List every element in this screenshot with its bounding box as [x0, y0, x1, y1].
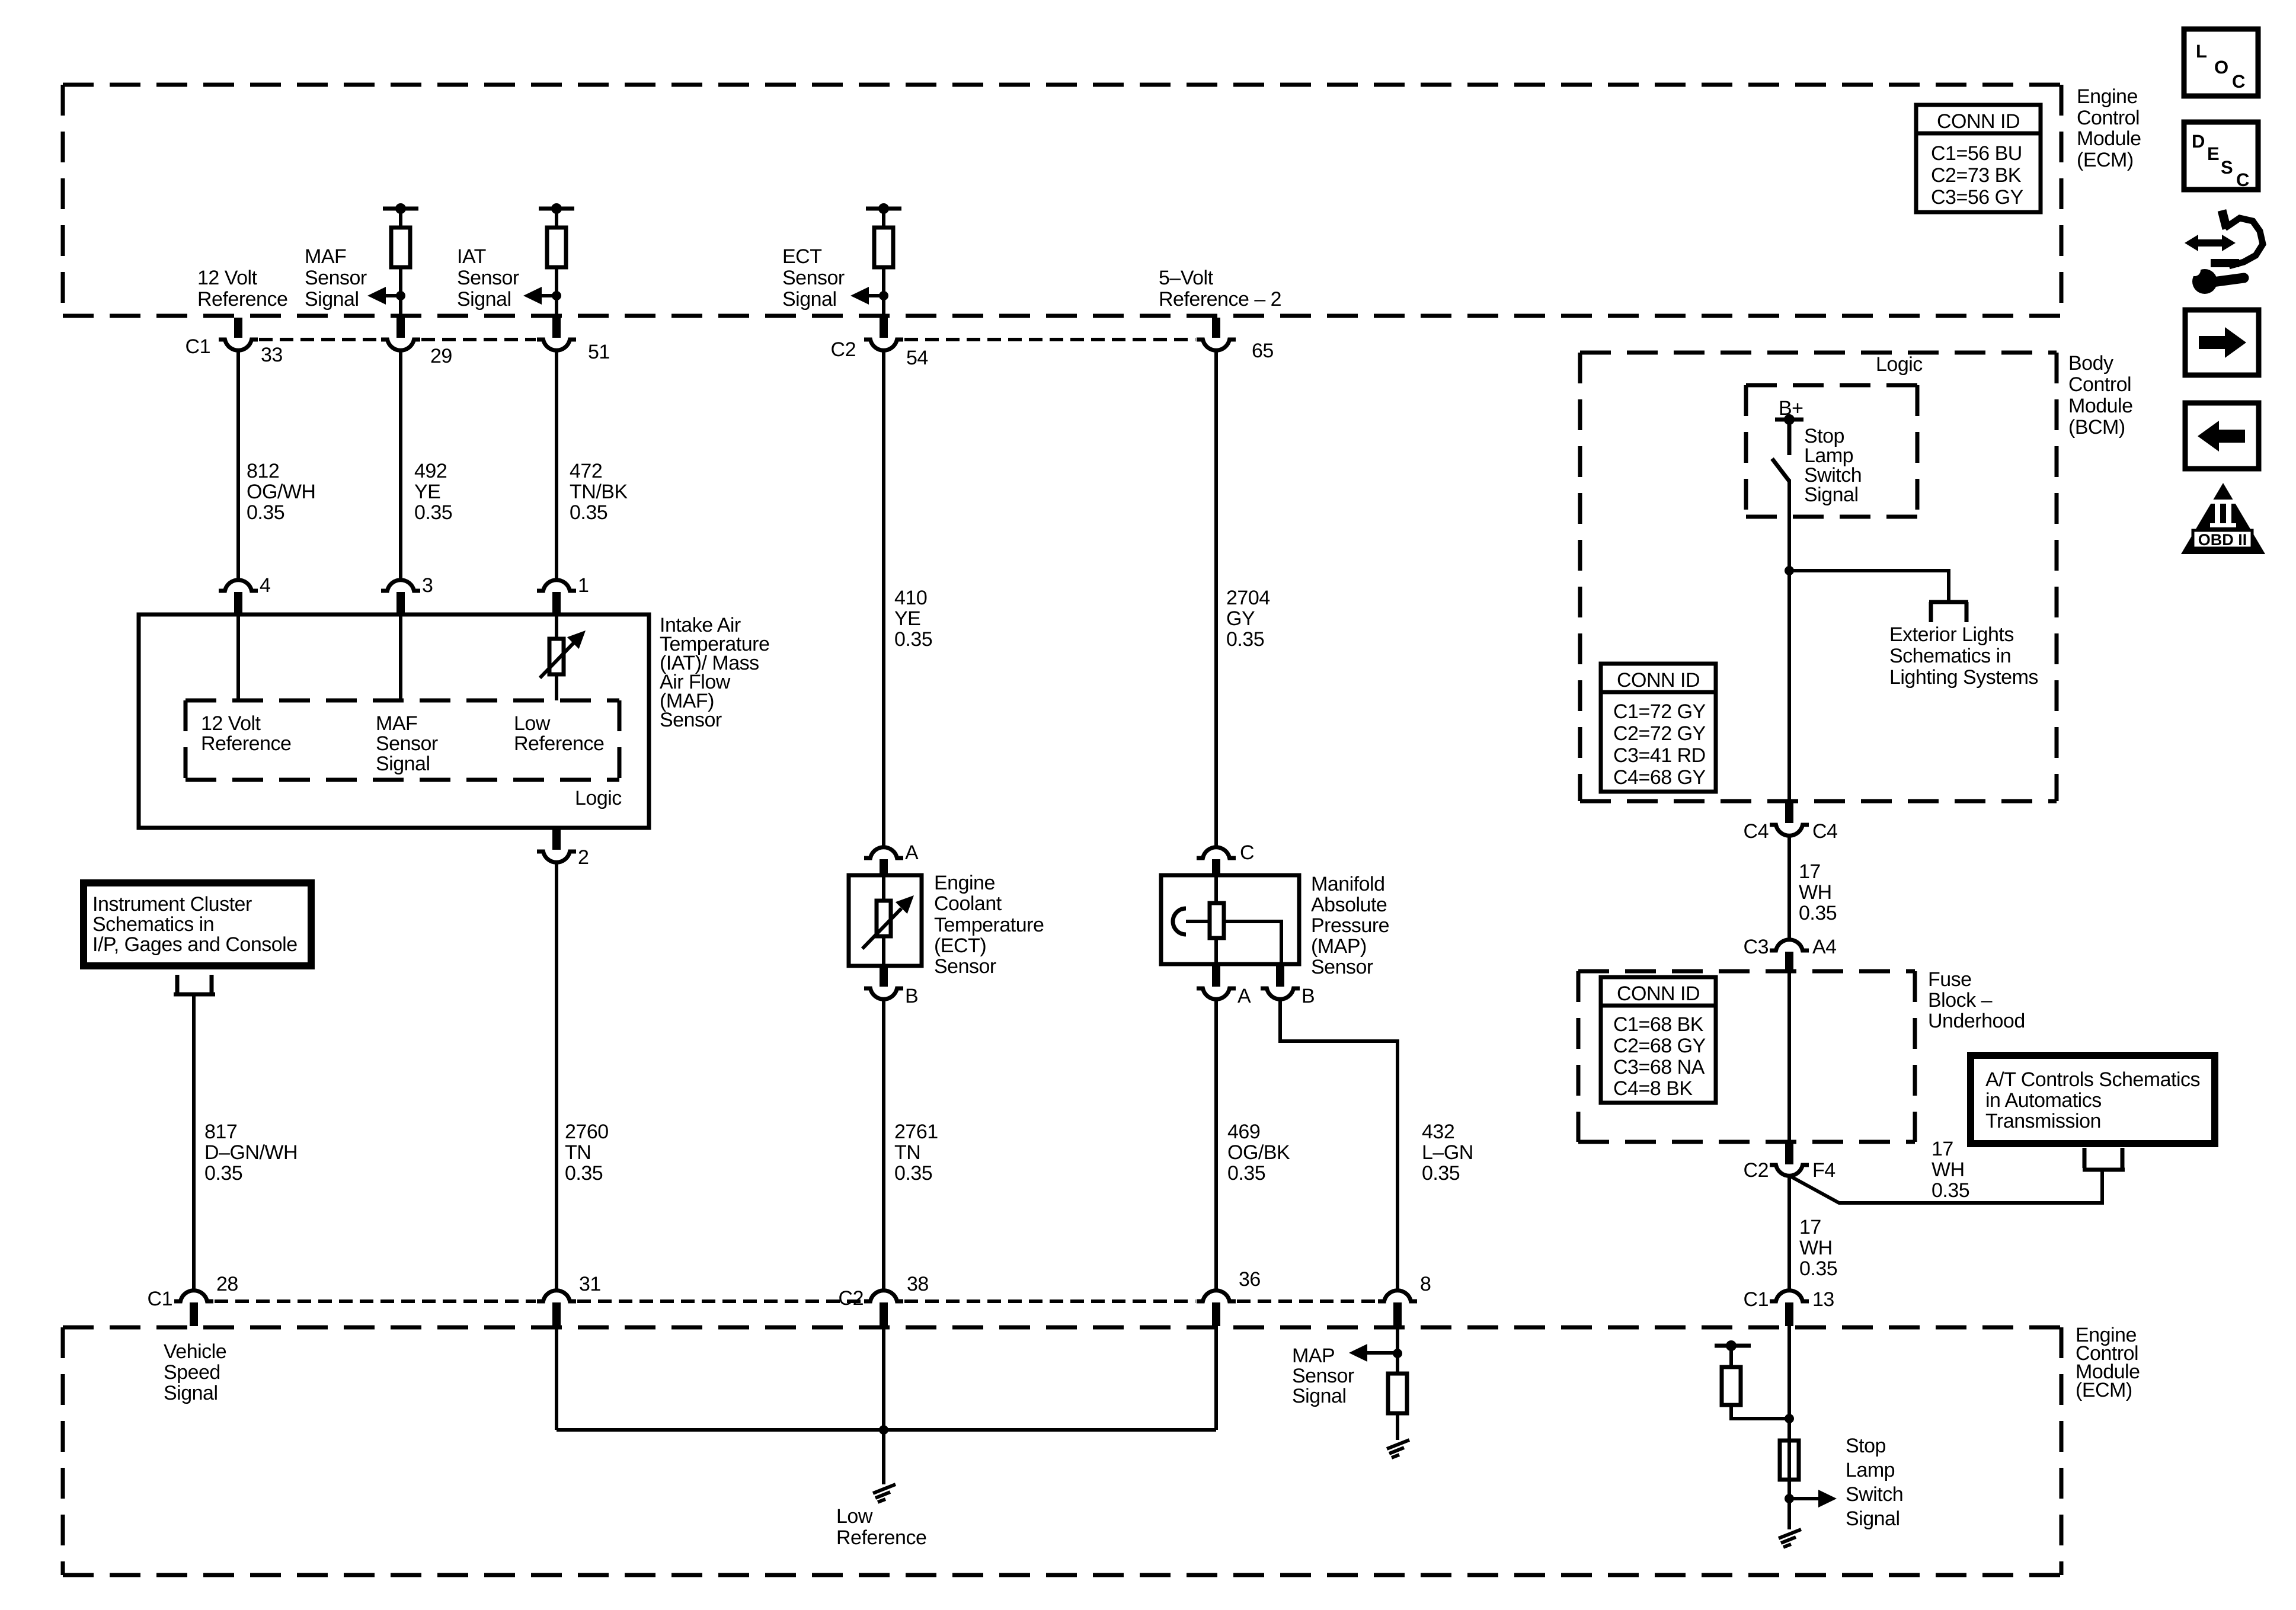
- svg-text:IAT: IAT: [457, 245, 486, 268]
- connector dome C3/A4: [1770, 940, 1809, 950]
- svg-text:4: 4: [260, 574, 270, 597]
- svg-text:L: L: [2196, 41, 2207, 62]
- connector dotted line C2 top (54 to 65): [904, 338, 1195, 341]
- arrow line (stop lamp switch signal): [1789, 1497, 1821, 1500]
- svg-text:0.35: 0.35: [414, 501, 452, 524]
- connector stub pin 38: [880, 1302, 888, 1326]
- svg-text:YE: YE: [894, 607, 920, 630]
- wire inside ECM: 38 down to ground: [882, 1326, 885, 1484]
- svg-text:C2=73 BK: C2=73 BK: [1931, 164, 2022, 187]
- svg-text:MAF: MAF: [376, 712, 417, 735]
- svg-text:0.35: 0.35: [247, 501, 284, 524]
- svg-text:A4: A4: [1812, 936, 1837, 958]
- svg-text:2: 2: [578, 846, 589, 869]
- module box: Engine Control Module (ECM) bottom, dashed outline: [63, 1327, 2061, 1575]
- svg-text:13: 13: [1812, 1288, 1834, 1311]
- junction dot on bus: [879, 1425, 888, 1435]
- svg-text:B: B: [1302, 985, 1315, 1007]
- connector stub pin 65: [1212, 318, 1220, 338]
- svg-text:Sensor: Sensor: [782, 267, 845, 289]
- connector cup pin 51: [537, 340, 576, 350]
- svg-text:C2=68 GY: C2=68 GY: [1613, 1035, 1706, 1057]
- svg-text:(BCM): (BCM): [2068, 416, 2125, 438]
- svg-text:472: 472: [570, 460, 602, 482]
- svg-text:54: 54: [906, 347, 928, 369]
- svg-text:Signal: Signal: [457, 288, 511, 311]
- svg-text:Sensor: Sensor: [1311, 956, 1373, 978]
- svg-text:Instrument Cluster: Instrument Cluster: [92, 893, 252, 916]
- CONN ID table (ECM): [1916, 105, 2041, 212]
- junction dot (ECT signal arrow): [879, 291, 888, 300]
- svg-text:Control: Control: [2077, 107, 2140, 129]
- junction dot on rail: [551, 203, 562, 214]
- svg-text:C4=68 GY: C4=68 GY: [1613, 766, 1706, 789]
- connector stub pin 54: [880, 318, 888, 338]
- svg-text:Sensor: Sensor: [305, 267, 367, 289]
- svg-text:432: 432: [1422, 1121, 1454, 1143]
- svg-text:C: C: [2232, 71, 2245, 92]
- svg-text:Transmission: Transmission: [1985, 1110, 2101, 1132]
- wire 17 WH: C4 to C3: [1787, 834, 1791, 939]
- svg-text:Signal: Signal: [376, 753, 430, 775]
- MAP element resistor: [1210, 903, 1224, 938]
- svg-text:MAF: MAF: [305, 245, 346, 268]
- svg-text:D–GN/WH: D–GN/WH: [204, 1141, 298, 1164]
- junction dot (exterior lights branch): [1785, 566, 1794, 575]
- wire pin 3 to logic box: [399, 613, 402, 700]
- connector dotted line bottom (38 to 36): [904, 1299, 1195, 1303]
- svg-text:492: 492: [414, 460, 447, 482]
- wire switch down through BCM: [1787, 479, 1791, 801]
- svg-text:I/P, Gages and Console: I/P, Gages and Console: [92, 933, 298, 956]
- svg-text:WH: WH: [1799, 1237, 1833, 1259]
- resistor pull-up rail (ECT signal): [866, 207, 901, 211]
- reference box: A/T Controls Schematics: [1971, 1055, 2215, 1144]
- connector cup pin 54: [864, 340, 903, 350]
- junction dot (stop lamp signal arrow): [1785, 1494, 1794, 1503]
- svg-text:D: D: [2192, 131, 2205, 152]
- connector stub pin 51: [552, 318, 561, 338]
- svg-text:ECT: ECT: [782, 245, 822, 268]
- connector stub pin 33: [234, 318, 242, 338]
- svg-text:0.35: 0.35: [204, 1162, 242, 1185]
- svg-text:Lighting Systems: Lighting Systems: [1889, 666, 2038, 689]
- wire bar to resistor: [1729, 1346, 1733, 1367]
- svg-text:C4: C4: [1812, 820, 1837, 843]
- connector stub pin 31: [552, 1302, 561, 1326]
- junction dot (IAT signal arrow): [552, 291, 561, 300]
- svg-text:(ECM): (ECM): [2076, 1379, 2132, 1401]
- connector dotted line C1 top (33 to 29): [259, 338, 380, 341]
- wire pin C into MAP element: [1214, 875, 1218, 903]
- wire 17 WH: F4 down to C1-13: [1787, 1174, 1791, 1290]
- svg-text:Body: Body: [2068, 352, 2113, 375]
- MAP element output line right: [1224, 921, 1281, 964]
- svg-text:GY: GY: [1226, 607, 1255, 630]
- svg-text:O: O: [2214, 57, 2228, 78]
- svg-text:Underhood: Underhood: [1928, 1010, 2025, 1032]
- svg-text:Control: Control: [2068, 373, 2131, 396]
- svg-text:WH: WH: [1799, 881, 1832, 904]
- svg-text:Signal: Signal: [305, 288, 359, 311]
- connector dome pin 8: [1378, 1291, 1417, 1301]
- svg-text:in Automatics: in Automatics: [1985, 1089, 2102, 1112]
- svg-text:0.35: 0.35: [1799, 1257, 1837, 1280]
- wire resistor to junction: [399, 267, 402, 318]
- connector stub pin 1: [552, 592, 561, 613]
- wire 410 YE: C2-54 down to ECT pin A: [882, 349, 885, 846]
- wire inside ECM: 8 down to MAP signal junction: [1396, 1326, 1399, 1374]
- connector cup pin 33: [219, 340, 258, 350]
- svg-text:Low: Low: [836, 1505, 873, 1528]
- branch wire to exterior lights: [1789, 571, 1949, 602]
- svg-text:38: 38: [907, 1273, 929, 1295]
- svg-text:Vehicle: Vehicle: [164, 1340, 226, 1363]
- svg-text:65: 65: [1252, 340, 1274, 362]
- junction dot (stop lamp): [1785, 1414, 1794, 1423]
- svg-text:C1=56 BU: C1=56 BU: [1931, 142, 2022, 165]
- svg-text:Signal: Signal: [1804, 484, 1859, 506]
- wire thermistor to logic box: [555, 674, 558, 700]
- svg-text:TN/BK: TN/BK: [570, 481, 628, 503]
- connector stub pin 4: [234, 592, 242, 613]
- icon: back arrow box: [2185, 403, 2259, 469]
- svg-text:Reference: Reference: [836, 1526, 926, 1549]
- connector cup pin 2: [537, 852, 576, 862]
- svg-text:0.35: 0.35: [1226, 628, 1264, 651]
- wire resistor to junction: [1731, 1405, 1789, 1419]
- thermistor arrowhead: [896, 895, 914, 914]
- wire 812 OG/WH: C1-33 down to MAF pin 4: [236, 349, 240, 581]
- icon: LOC box: [2184, 29, 2258, 96]
- reference box: Instrument Cluster Schematics: [84, 883, 311, 966]
- svg-text:Signal: Signal: [164, 1382, 218, 1404]
- connector cup C2/F4: [1770, 1165, 1809, 1176]
- switch blade (stop lamp switch): [1772, 459, 1789, 481]
- connector stub pin 2: [552, 830, 561, 850]
- wire 2760 TN: MAF pin 2 down to C1-31: [555, 861, 558, 1290]
- svg-text:0.35: 0.35: [565, 1162, 603, 1185]
- svg-text:Schematics in: Schematics in: [92, 913, 214, 936]
- svg-text:51: 51: [588, 341, 610, 363]
- svg-text:C3=68 NA: C3=68 NA: [1613, 1056, 1705, 1078]
- svg-text:Absolute: Absolute: [1311, 894, 1387, 916]
- svg-text:Temperature: Temperature: [934, 914, 1044, 936]
- arrowhead left (MAP sensor signal): [1349, 1344, 1367, 1362]
- B+ junction dot: [1784, 414, 1795, 425]
- off-page bracket (A/T controls): [2083, 1148, 2125, 1170]
- svg-text:2760: 2760: [565, 1121, 609, 1143]
- svg-text:Sensor: Sensor: [934, 955, 996, 978]
- wire resistor to ground: [1396, 1413, 1399, 1440]
- wire resistor to junction: [882, 267, 885, 318]
- connector stub pin A (MAP): [1212, 964, 1220, 987]
- svg-text:C1=68 BK: C1=68 BK: [1613, 1013, 1704, 1036]
- svg-text:C2: C2: [839, 1287, 864, 1310]
- svg-text:Logic: Logic: [1876, 353, 1923, 376]
- wire rail to resistor: [399, 209, 402, 228]
- svg-text:C3=41 RD: C3=41 RD: [1613, 744, 1706, 767]
- connector dome pin A (ECT): [864, 847, 903, 858]
- icon: OBD II triangle: [2181, 483, 2265, 554]
- svg-text:817: 817: [204, 1121, 237, 1143]
- svg-text:Stop: Stop: [1846, 1435, 1886, 1457]
- svg-text:(ECM): (ECM): [2077, 149, 2134, 171]
- icon: service wrench with arrows: [2185, 210, 2263, 294]
- svg-text:B: B: [905, 985, 918, 1007]
- svg-text:410: 410: [894, 587, 927, 609]
- wire inside ECM: 36 down to bus: [1214, 1326, 1218, 1430]
- svg-text:C2=72 GY: C2=72 GY: [1613, 722, 1706, 745]
- wire inside ECM: 31 down to low-reference bus: [555, 1326, 558, 1430]
- svg-text:17: 17: [1799, 1216, 1821, 1238]
- svg-text:TN: TN: [565, 1141, 591, 1164]
- arrowhead left (MAF sensor signal): [367, 287, 386, 305]
- svg-text:Engine: Engine: [2077, 85, 2138, 108]
- svg-text:L–GN: L–GN: [1422, 1141, 1473, 1164]
- ground symbol (low reference): [873, 1484, 896, 1502]
- MAP pressure sensing element semicircle: [1173, 908, 1186, 934]
- svg-text:0.35: 0.35: [894, 628, 932, 651]
- svg-text:0.35: 0.35: [1227, 1162, 1265, 1185]
- connector stub pin 36: [1212, 1302, 1220, 1326]
- CONN ID table (Fuse Block): [1601, 977, 1716, 1103]
- connector dotted line bottom (31 to 38): [577, 1299, 863, 1303]
- wire A/T branch: F4 diagonal to bracket: [1789, 1172, 2102, 1203]
- svg-text:Signal: Signal: [1292, 1385, 1347, 1407]
- svg-text:CONN ID: CONN ID: [1617, 669, 1700, 692]
- resistor (IAT signal pull-up): [547, 228, 566, 267]
- svg-text:8: 8: [1420, 1273, 1431, 1295]
- svg-text:C: C: [2236, 169, 2249, 190]
- svg-text:CONN ID: CONN ID: [1617, 982, 1700, 1005]
- resistor (ECT signal pull-up): [874, 228, 893, 267]
- connector dome pin 31: [537, 1291, 576, 1301]
- wire 817 D-GN/WH: bracket down to C1-28: [192, 996, 196, 1290]
- connector cup pin B (ECT): [864, 988, 903, 999]
- connector dome pin 28: [174, 1291, 213, 1301]
- wire 469 OG/BK: MAP pin A down to 36: [1214, 998, 1218, 1290]
- svg-text:0.35: 0.35: [894, 1162, 932, 1185]
- junction dot on rail: [395, 203, 406, 214]
- arrow line (ECT sensor signal): [867, 294, 884, 297]
- svg-text:OG/BK: OG/BK: [1227, 1141, 1290, 1164]
- svg-text:31: 31: [579, 1273, 601, 1295]
- svg-text:WH: WH: [1932, 1158, 1965, 1181]
- resistor pull-up rail (MAF signal): [383, 207, 418, 211]
- connector stub pin 28: [190, 1302, 198, 1326]
- terminal bar above pull-down resistor: [1715, 1344, 1751, 1348]
- resistor (MAP signal load): [1388, 1374, 1407, 1413]
- svg-text:C2: C2: [831, 338, 856, 361]
- connector stub pin A: [880, 859, 888, 877]
- svg-text:Lamp: Lamp: [1846, 1459, 1895, 1481]
- svg-text:Sensor: Sensor: [1292, 1365, 1354, 1387]
- wire through fuse block: [1787, 971, 1791, 1142]
- svg-text:Reference: Reference: [197, 288, 287, 311]
- svg-text:C3=56 GY: C3=56 GY: [1931, 186, 2023, 209]
- svg-text:Fuse: Fuse: [1928, 968, 1972, 991]
- svg-text:Low: Low: [514, 712, 551, 735]
- thermistor arrow diagonal: [862, 908, 901, 949]
- wire 472 TN/BK: C1-51 down to MAF pin 1: [555, 349, 558, 581]
- svg-text:0.35: 0.35: [570, 501, 607, 524]
- svg-text:Module: Module: [2068, 395, 2133, 417]
- connector cup pin 65: [1197, 340, 1236, 350]
- arrowhead right (stop lamp switch signal): [1818, 1490, 1837, 1507]
- off-page bracket under instrument cluster box: [174, 975, 215, 994]
- connector dome pin 38: [864, 1291, 903, 1301]
- svg-text:Exterior Lights: Exterior Lights: [1889, 623, 2014, 646]
- svg-text:(ECT): (ECT): [934, 934, 986, 957]
- svg-text:Coolant: Coolant: [934, 892, 1002, 915]
- svg-text:Signal: Signal: [782, 288, 837, 311]
- svg-text:C3: C3: [1744, 936, 1769, 958]
- thermistor body (IAT): [549, 639, 564, 674]
- logic box: inner dashed box of MAF sensor: [186, 700, 619, 780]
- svg-text:Reference: Reference: [514, 732, 604, 755]
- svg-text:S: S: [2221, 157, 2233, 178]
- resistor pull-up rail (IAT signal): [539, 207, 574, 211]
- connector dome pin 36: [1197, 1291, 1236, 1301]
- icon: DESC box: [2184, 122, 2258, 190]
- B+ terminal bar: [1775, 418, 1803, 422]
- svg-text:C2: C2: [1744, 1159, 1769, 1182]
- svg-text:2761: 2761: [894, 1121, 938, 1143]
- svg-text:2704: 2704: [1226, 587, 1270, 609]
- thermistor arrow diagonal: [540, 643, 574, 678]
- thermistor arrowhead: [567, 630, 586, 649]
- svg-text:A/T Controls Schematics: A/T Controls Schematics: [1985, 1068, 2200, 1091]
- svg-text:E: E: [2207, 143, 2220, 164]
- svg-text:OG/WH: OG/WH: [247, 481, 315, 503]
- svg-text:A: A: [1237, 985, 1251, 1007]
- wire 432 L-GN: MAP pin B route to connector 8: [1280, 998, 1398, 1290]
- arrow line (MAF sensor signal): [384, 294, 401, 297]
- svg-text:Sensor: Sensor: [457, 267, 519, 289]
- connector dome pin 1: [537, 580, 576, 591]
- svg-text:Module: Module: [2077, 127, 2141, 150]
- junction dot on rail: [878, 203, 889, 214]
- wire 492 YE: C1-29 down to MAF pin 3: [399, 349, 402, 581]
- svg-text:F4: F4: [1812, 1159, 1835, 1182]
- svg-text:17: 17: [1932, 1138, 1953, 1160]
- MAP element link line: [1186, 920, 1210, 923]
- svg-text:C4=8 BK: C4=8 BK: [1613, 1077, 1693, 1100]
- connector cup pin B (MAP): [1261, 988, 1300, 999]
- svg-text:TN: TN: [894, 1141, 920, 1164]
- svg-text:C1: C1: [148, 1288, 172, 1310]
- connector dome pin 13: [1770, 1291, 1809, 1301]
- wire pin1 into thermistor: [555, 613, 558, 639]
- svg-text:812: 812: [247, 460, 279, 482]
- svg-text:Sensor: Sensor: [660, 709, 722, 731]
- wire element to pin A: [1214, 938, 1218, 964]
- component box: ECT sensor: [849, 875, 922, 966]
- arrow line (IAT sensor signal): [540, 294, 557, 297]
- svg-text:28: 28: [216, 1273, 238, 1295]
- CONN ID table (BCM): [1601, 664, 1716, 792]
- svg-text:Signal: Signal: [1846, 1507, 1900, 1530]
- connector stub A4: [1785, 952, 1793, 972]
- low reference bus horizontal: [557, 1428, 1216, 1432]
- svg-text:Block –: Block –: [1928, 989, 1993, 1012]
- junction dot (MAP signal): [1393, 1349, 1402, 1358]
- svg-text:CONN ID: CONN ID: [1937, 110, 2020, 133]
- connector stub pin 13: [1785, 1302, 1793, 1326]
- ground symbol (stop lamp): [1779, 1529, 1801, 1547]
- connector dome pin C (MAP): [1197, 847, 1236, 858]
- svg-text:29: 29: [430, 345, 452, 367]
- svg-text:0.35: 0.35: [1422, 1162, 1460, 1185]
- thermistor body (ECT): [877, 901, 891, 936]
- connector stub pin 3: [396, 592, 405, 613]
- svg-text:17: 17: [1799, 860, 1821, 883]
- connector dotted line bottom (36 to 8): [1237, 1299, 1377, 1303]
- svg-text:Reference – 2: Reference – 2: [1159, 288, 1281, 311]
- resistor (stop lamp pull): [1722, 1367, 1741, 1405]
- svg-text:36: 36: [1239, 1268, 1261, 1291]
- wire pin 4 to logic box: [236, 613, 240, 700]
- connector cup C4: [1770, 825, 1809, 836]
- svg-text:Speed: Speed: [164, 1361, 220, 1384]
- connector stub pin C: [1212, 859, 1220, 877]
- arrow line (MAP sensor signal): [1365, 1351, 1398, 1355]
- svg-text:C1: C1: [186, 335, 210, 358]
- connector stub pin 29: [396, 318, 405, 338]
- connector stub C4 upper: [1785, 803, 1793, 823]
- wire rail to resistor: [555, 209, 558, 228]
- svg-text:Manifold: Manifold: [1311, 873, 1385, 895]
- svg-text:5–Volt: 5–Volt: [1159, 267, 1214, 289]
- connector cup pin A (MAP): [1197, 988, 1236, 999]
- logic box: stop lamp switch dashed box inside BCM: [1746, 385, 1917, 517]
- ground symbol (MAP signal): [1387, 1440, 1409, 1458]
- component box: IAT/MAF sensor: [139, 614, 649, 828]
- svg-text:C4: C4: [1744, 820, 1769, 843]
- B+ stub down to switch: [1787, 420, 1792, 455]
- resistor (MAF signal pull-up): [391, 228, 410, 267]
- svg-text:C: C: [1240, 841, 1254, 864]
- connector stub pin B (MAP): [1276, 964, 1284, 987]
- junction dot (MAF signal arrow): [396, 291, 405, 300]
- svg-text:Switch: Switch: [1846, 1483, 1903, 1506]
- wire resistor to junction: [555, 267, 558, 318]
- svg-text:Schematics in: Schematics in: [1889, 645, 2011, 667]
- svg-text:Sensor: Sensor: [376, 732, 438, 755]
- svg-text:0.35: 0.35: [1799, 902, 1837, 924]
- module box: Body Control Module (BCM), dashed outline: [1580, 353, 2057, 801]
- arrowhead left (IAT sensor signal): [523, 287, 542, 305]
- svg-text:A: A: [905, 841, 919, 864]
- svg-text:Logic: Logic: [575, 787, 622, 809]
- svg-text:0.35: 0.35: [1932, 1179, 1969, 1202]
- svg-text:YE: YE: [414, 481, 440, 503]
- wire thermistor to pin B: [882, 936, 885, 966]
- connector dotted line C1 top (29 to 51): [421, 338, 536, 341]
- svg-text:Reference: Reference: [201, 732, 291, 755]
- svg-text:MAP: MAP: [1292, 1345, 1335, 1367]
- svg-text:12 Volt: 12 Volt: [201, 712, 261, 735]
- svg-text:469: 469: [1227, 1121, 1260, 1143]
- off-page bracket (exterior lights): [1929, 602, 1968, 622]
- connector stub pin B (ECT): [880, 966, 888, 987]
- svg-text:(MAP): (MAP): [1311, 935, 1367, 958]
- connector dotted line bottom (28 to 31): [215, 1299, 536, 1303]
- svg-text:1: 1: [578, 574, 589, 597]
- connector stub F4: [1785, 1143, 1793, 1164]
- wire rail to resistor: [882, 209, 885, 228]
